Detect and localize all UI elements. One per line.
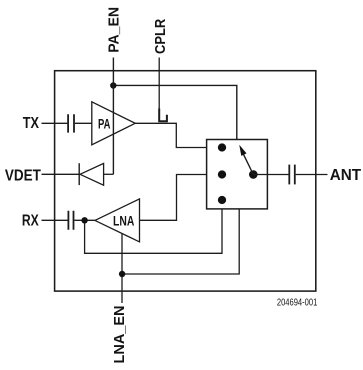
wire switch common to ANT cap	[253, 174, 288, 176]
node switch throw 2	[218, 170, 226, 178]
capacitor RX blocking cap	[68, 211, 73, 230]
svg-text:LNA: LNA	[113, 213, 134, 228]
wire LNA_EN branch to switch	[122, 209, 239, 274]
svg-text:204694-001: 204694-001	[277, 297, 318, 308]
svg-text:PA_EN: PA_EN	[106, 7, 122, 53]
wire PA_EN branch to switch control	[113, 85, 236, 139]
node junction PA_EN	[110, 82, 116, 88]
wire cap to ANT pin	[296, 174, 328, 176]
node switch throw 3	[218, 196, 226, 204]
node junction LNA_EN	[119, 271, 125, 277]
outer block boundary box	[55, 71, 316, 291]
capacitor ANT blocking cap	[288, 165, 290, 185]
svg-text:PA: PA	[98, 117, 111, 132]
switch U1 box	[207, 140, 268, 209]
wire TX lead	[42, 122, 68, 124]
diode D1 cathode bar	[78, 163, 80, 185]
wire CPLR lead	[158, 58, 160, 110]
wire PA_EN lead into box	[112, 58, 114, 175]
diode D1 body	[80, 163, 104, 185]
wire RX bypass to switch pole 3	[85, 200, 222, 253]
svg-text:LNA_EN: LNA_EN	[112, 306, 128, 364]
wire PA output to switch pole 1	[135, 123, 222, 147]
wire cap to LNA input	[74, 219, 95, 221]
wire RX lead	[42, 219, 68, 221]
op-amp PA amplifier	[92, 102, 135, 145]
node switch throw 1	[218, 143, 226, 151]
svg-text:RX: RX	[22, 212, 39, 229]
wire VDET lead	[42, 173, 79, 175]
node junction RX	[81, 217, 87, 223]
svg-text:VDET: VDET	[5, 167, 41, 184]
capacitor TX blocking cap	[68, 114, 74, 132]
op-amp LNA amplifier	[95, 199, 140, 242]
svg-text:TX: TX	[23, 115, 40, 132]
wire diode to PA_EN line	[104, 173, 114, 175]
switch arm with arrow	[244, 155, 254, 175]
svg-text:CPLR: CPLR	[153, 18, 169, 54]
node switch common pole	[249, 170, 258, 179]
wire LNA output to switch pole 2	[140, 175, 223, 221]
wire LNA_EN lead	[121, 234, 123, 303]
wire cap to PA	[75, 122, 92, 124]
coupler symbol	[159, 109, 167, 122]
svg-text:ANT: ANT	[330, 167, 362, 184]
